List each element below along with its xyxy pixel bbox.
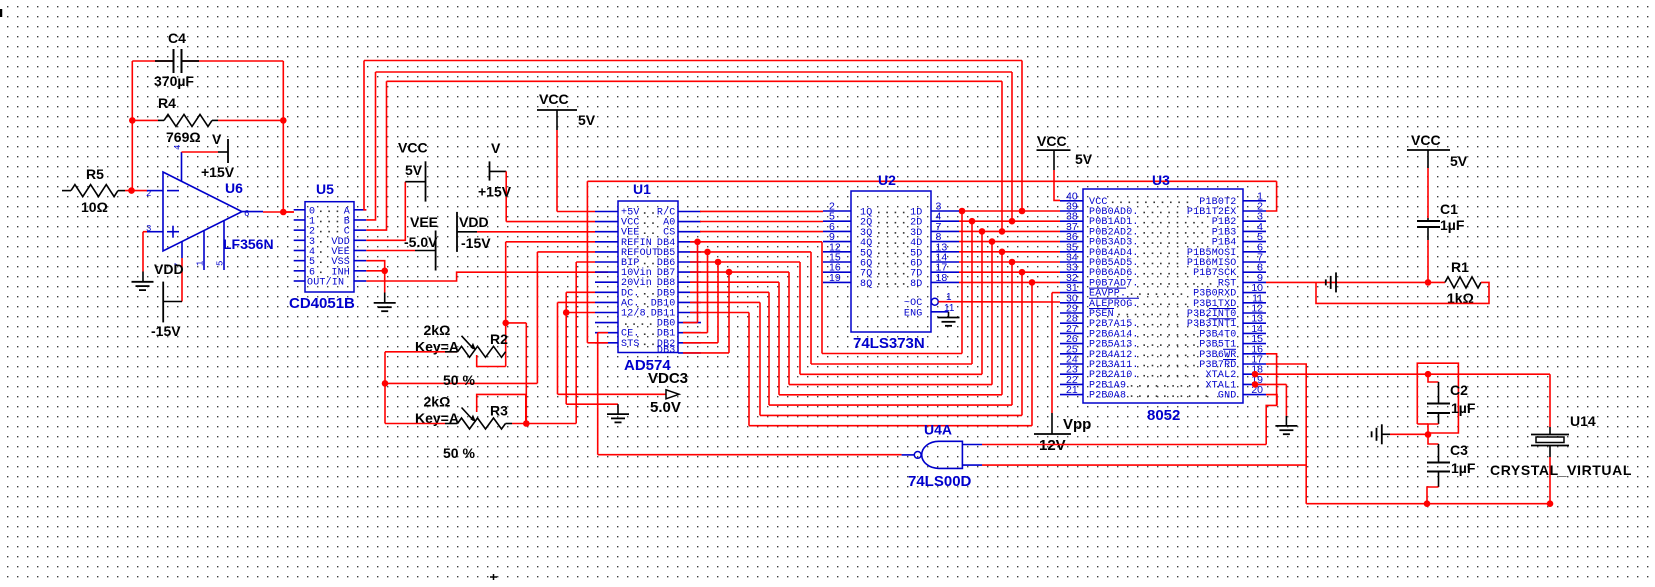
svg-text:5V: 5V (405, 162, 423, 178)
svg-text:C1: C1 (1440, 201, 1458, 217)
svg-text:VDD: VDD (154, 261, 184, 277)
svg-text:DB3: DB3 (657, 346, 676, 357)
svg-text:1: 1 (196, 261, 206, 266)
svg-text:5: 5 (216, 261, 226, 266)
svg-text:5V: 5V (1450, 153, 1468, 169)
svg-text:R5: R5 (86, 166, 104, 182)
svg-text:2: 2 (146, 189, 151, 199)
svg-text:5V: 5V (578, 112, 596, 128)
svg-text:U2: U2 (878, 172, 896, 188)
svg-text:50 %: 50 % (443, 445, 475, 461)
svg-text:2kΩ: 2kΩ (424, 322, 451, 338)
svg-text:CD4051B: CD4051B (289, 295, 355, 312)
svg-text:R3: R3 (490, 403, 508, 419)
svg-text:+15V: +15V (201, 164, 235, 180)
svg-text:U4A: U4A (924, 422, 952, 438)
svg-text:4: 4 (173, 145, 183, 150)
svg-text:Vpp: Vpp (1063, 416, 1091, 433)
svg-text:OUT/IN: OUT/IN (307, 276, 344, 288)
svg-text:VDD: VDD (459, 214, 489, 230)
svg-text:-5.0V: -5.0V (404, 234, 438, 250)
svg-text:50 %: 50 % (443, 372, 475, 388)
svg-text:5.0V: 5.0V (650, 399, 681, 416)
svg-text:C3: C3 (1450, 442, 1468, 458)
svg-text:21: 21 (1066, 384, 1078, 396)
svg-text:CRYSTAL_VIRTUAL: CRYSTAL_VIRTUAL (1490, 462, 1632, 478)
svg-text:VCC: VCC (1037, 133, 1067, 149)
svg-text:U1: U1 (633, 181, 651, 197)
svg-text:12/8: 12/8 (621, 308, 646, 320)
svg-text:1µF: 1µF (1451, 460, 1476, 476)
svg-text:U3: U3 (1152, 172, 1170, 188)
svg-text:5V: 5V (1075, 151, 1093, 167)
svg-text:-15V: -15V (151, 323, 181, 339)
svg-text:VCC: VCC (398, 139, 428, 155)
svg-text:U14: U14 (1570, 413, 1596, 429)
svg-text:GND: GND (1218, 391, 1237, 402)
svg-text:8D: 8D (910, 279, 922, 290)
svg-text:R4: R4 (158, 95, 176, 111)
svg-text:VCC: VCC (1411, 132, 1441, 148)
svg-text:6: 6 (244, 209, 249, 219)
svg-text:P2B0A8: P2B0A8 (1089, 391, 1126, 402)
svg-text:STS: STS (621, 339, 640, 350)
svg-text:74LS373N: 74LS373N (853, 335, 925, 352)
svg-text:10Ω: 10Ω (81, 199, 108, 215)
svg-text:+15V: +15V (478, 183, 512, 199)
svg-text:1µF: 1µF (1451, 400, 1476, 416)
svg-text:VEE: VEE (410, 214, 438, 230)
svg-text:U5: U5 (316, 181, 334, 197)
svg-text:C4: C4 (168, 30, 186, 46)
svg-text:74LS00D: 74LS00D (908, 473, 972, 490)
svg-text:2kΩ: 2kΩ (424, 394, 451, 410)
svg-text:C2: C2 (1450, 382, 1468, 398)
svg-text:R1: R1 (1451, 259, 1469, 275)
svg-text:U6: U6 (225, 180, 243, 196)
svg-text:VCC: VCC (539, 91, 569, 107)
svg-text:769Ω: 769Ω (166, 129, 201, 145)
svg-text:R2: R2 (490, 331, 508, 347)
svg-text:19: 19 (829, 272, 841, 284)
svg-text:12V: 12V (1039, 437, 1066, 454)
svg-text:V: V (212, 131, 222, 147)
svg-text:1µF: 1µF (1440, 217, 1465, 233)
svg-text:8052: 8052 (1147, 407, 1180, 424)
svg-text:LF356N: LF356N (223, 236, 274, 252)
svg-text:-15V: -15V (461, 235, 491, 251)
svg-text:18: 18 (936, 272, 948, 284)
svg-text:370µF: 370µF (154, 73, 194, 89)
svg-text:ENG: ENG (904, 308, 923, 319)
svg-text:VDC3: VDC3 (648, 370, 688, 387)
svg-text:8Q: 8Q (860, 279, 872, 290)
svg-text:V: V (491, 140, 501, 156)
